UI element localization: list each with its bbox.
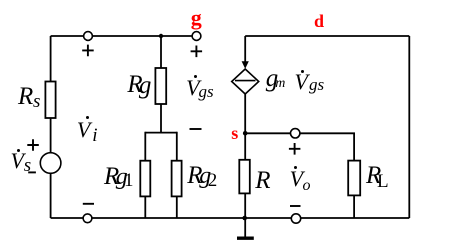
label Rg : R xyxy=(127,72,142,97)
resistor Rg2 xyxy=(172,161,182,197)
label gm : g xyxy=(266,66,279,91)
controlled current source diamond xyxy=(232,69,259,94)
terminal output bottom xyxy=(291,214,300,223)
minus sign input bottom xyxy=(83,203,94,205)
label RL : sub L xyxy=(377,172,389,191)
label gmVgs : sub gs xyxy=(309,76,324,93)
label Rs : sub s xyxy=(33,92,40,111)
label Vo : sub o xyxy=(303,178,311,194)
label gm : sub m xyxy=(275,77,285,91)
resistor Rg1 xyxy=(140,161,150,197)
arrow of controlled source xyxy=(242,61,249,69)
wire Rg to parallel bar xyxy=(160,104,162,133)
resistor Rs xyxy=(45,82,55,119)
label Rg2 : sub g xyxy=(199,164,211,188)
label R xyxy=(255,168,270,193)
label Rg1 : sub g xyxy=(116,165,128,189)
resistor Rg xyxy=(155,68,166,104)
label Vi : sub i xyxy=(92,126,97,145)
minus sign Vo xyxy=(290,205,301,207)
resistor R xyxy=(239,160,250,194)
dot over gmVgs V xyxy=(301,70,304,73)
wire current source stem xyxy=(244,36,246,66)
label Vs : V xyxy=(11,150,24,172)
dot over Vo xyxy=(294,166,297,169)
label RL : R xyxy=(366,163,381,188)
minus sign Vs xyxy=(28,171,36,173)
wire diamond to bottom through s xyxy=(244,94,246,218)
wire right rail xyxy=(408,36,410,218)
junction node at Rg top xyxy=(159,34,163,38)
label Vi : V xyxy=(77,119,90,141)
node label g xyxy=(191,7,202,29)
wire Rg2 branch xyxy=(176,132,178,218)
label gmVgs : V xyxy=(295,71,308,93)
wire top rail input to g xyxy=(51,35,197,37)
wire d rail top xyxy=(245,35,409,37)
wire left rail xyxy=(50,36,52,218)
dot over Vgs xyxy=(194,75,197,78)
ground stub xyxy=(244,218,246,237)
minus sign Vgs xyxy=(190,128,202,130)
junction node s xyxy=(243,131,248,136)
wire s to RL branch xyxy=(245,133,354,160)
source Vs xyxy=(40,153,61,174)
resistor RL xyxy=(348,161,360,196)
wire Rg1 branch xyxy=(144,132,146,218)
plus sign Vo xyxy=(289,143,301,155)
wire Rg stem xyxy=(160,36,162,68)
label Rg : sub g xyxy=(139,73,152,98)
label Rg2 : sub 2 xyxy=(208,171,218,190)
label Rg2 : R xyxy=(187,163,202,188)
label Vo : V xyxy=(290,168,303,190)
node label s xyxy=(231,124,238,142)
junction node at ground xyxy=(242,216,247,221)
wire bottom rail xyxy=(51,217,410,219)
label Rg1 : R xyxy=(104,164,119,189)
ground bar xyxy=(237,236,254,239)
dot over Vi xyxy=(86,116,89,119)
plus sign Vs xyxy=(27,139,39,151)
terminal input top xyxy=(84,32,93,41)
label Vgs : V xyxy=(186,77,199,99)
node label d xyxy=(314,12,324,30)
terminal input bottom xyxy=(83,214,92,223)
label Vgs : sub gs xyxy=(199,83,214,100)
wire RL bottom xyxy=(353,195,355,218)
terminal g xyxy=(192,32,201,41)
wire parallel top bar xyxy=(145,132,177,134)
label Rg1 : sub 1 xyxy=(124,171,134,190)
label Vs : sub s xyxy=(24,156,31,175)
label Rs : R xyxy=(18,84,33,109)
controlled source inner bar xyxy=(235,80,256,82)
plus sign g terminal xyxy=(191,46,203,58)
terminal output top xyxy=(291,129,300,138)
dot over Vs xyxy=(17,149,20,152)
plus sign input top xyxy=(82,45,94,57)
